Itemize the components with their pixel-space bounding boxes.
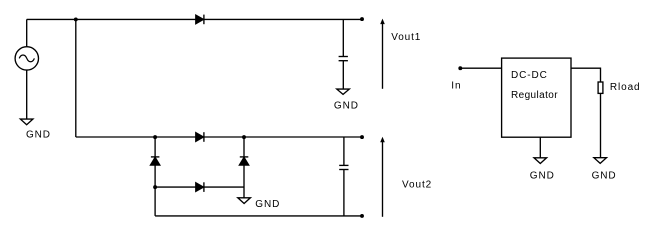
wire source bottom to ground [26,70,28,119]
arrow Vout2 [380,137,385,217]
capacitor C1 [339,57,348,61]
diode D4 [196,182,204,192]
wire source top up [26,19,28,46]
resistor Rload [598,82,603,93]
wire C2 branch down [343,137,345,165]
ground under source [20,119,33,125]
svg-text:GND: GND [334,100,359,111]
arrow Vout1 [380,19,385,89]
svg-text:GND: GND [592,171,617,182]
wire left branch lower [154,165,156,216]
wire C1 branch down [342,19,344,56]
capacitor C2 [339,165,348,169]
wire regulator to ground [539,137,541,158]
svg-text:GND: GND [530,171,555,182]
svg-text:Regulator: Regulator [511,90,558,101]
wire left branch upper [154,137,156,157]
wire C1 to ground [342,61,344,89]
ground under C1 [337,89,350,94]
ground under Rload [594,158,607,164]
ground middle [238,198,251,204]
ground under regulator [534,158,547,164]
node junction lower rail right [242,135,246,139]
svg-text:GND: GND [255,199,280,210]
svg-text:DC-DC: DC-DC [511,70,548,81]
diode D1 [196,15,204,25]
wire right branch upper [243,137,245,157]
wire right branch to ground [243,165,245,198]
wire resistor to ground [600,93,602,157]
node junction lower rail left [153,135,157,139]
wire top rail right [204,18,362,20]
svg-text:Rload: Rload [610,82,641,93]
node In [458,66,462,70]
wire lower rail [76,136,362,138]
AC source V1 [15,47,38,70]
svg-text:Vout1: Vout1 [391,32,421,43]
svg-text:In: In [451,81,461,92]
svg-text:GND: GND [26,130,51,141]
wire bottom rail [155,215,362,217]
wire middle horizontal [155,186,244,188]
wire regulator to resistor [571,68,601,82]
diode D5 [239,157,248,165]
wire left rail down [75,19,77,137]
DC-DC regulator U1 [502,58,571,137]
wire In to regulator [460,67,501,69]
svg-text:Vout2: Vout2 [402,179,432,190]
node end lower rail [360,135,364,139]
node junction middle wire [153,185,157,189]
node junction top rail [74,17,78,21]
diode D2 [196,132,204,142]
node end top rail [360,17,364,21]
wire C2 to bottom rail [343,170,345,216]
diode D3 [151,157,160,165]
node end bottom rail [360,214,364,218]
wire top rail left [27,18,196,20]
